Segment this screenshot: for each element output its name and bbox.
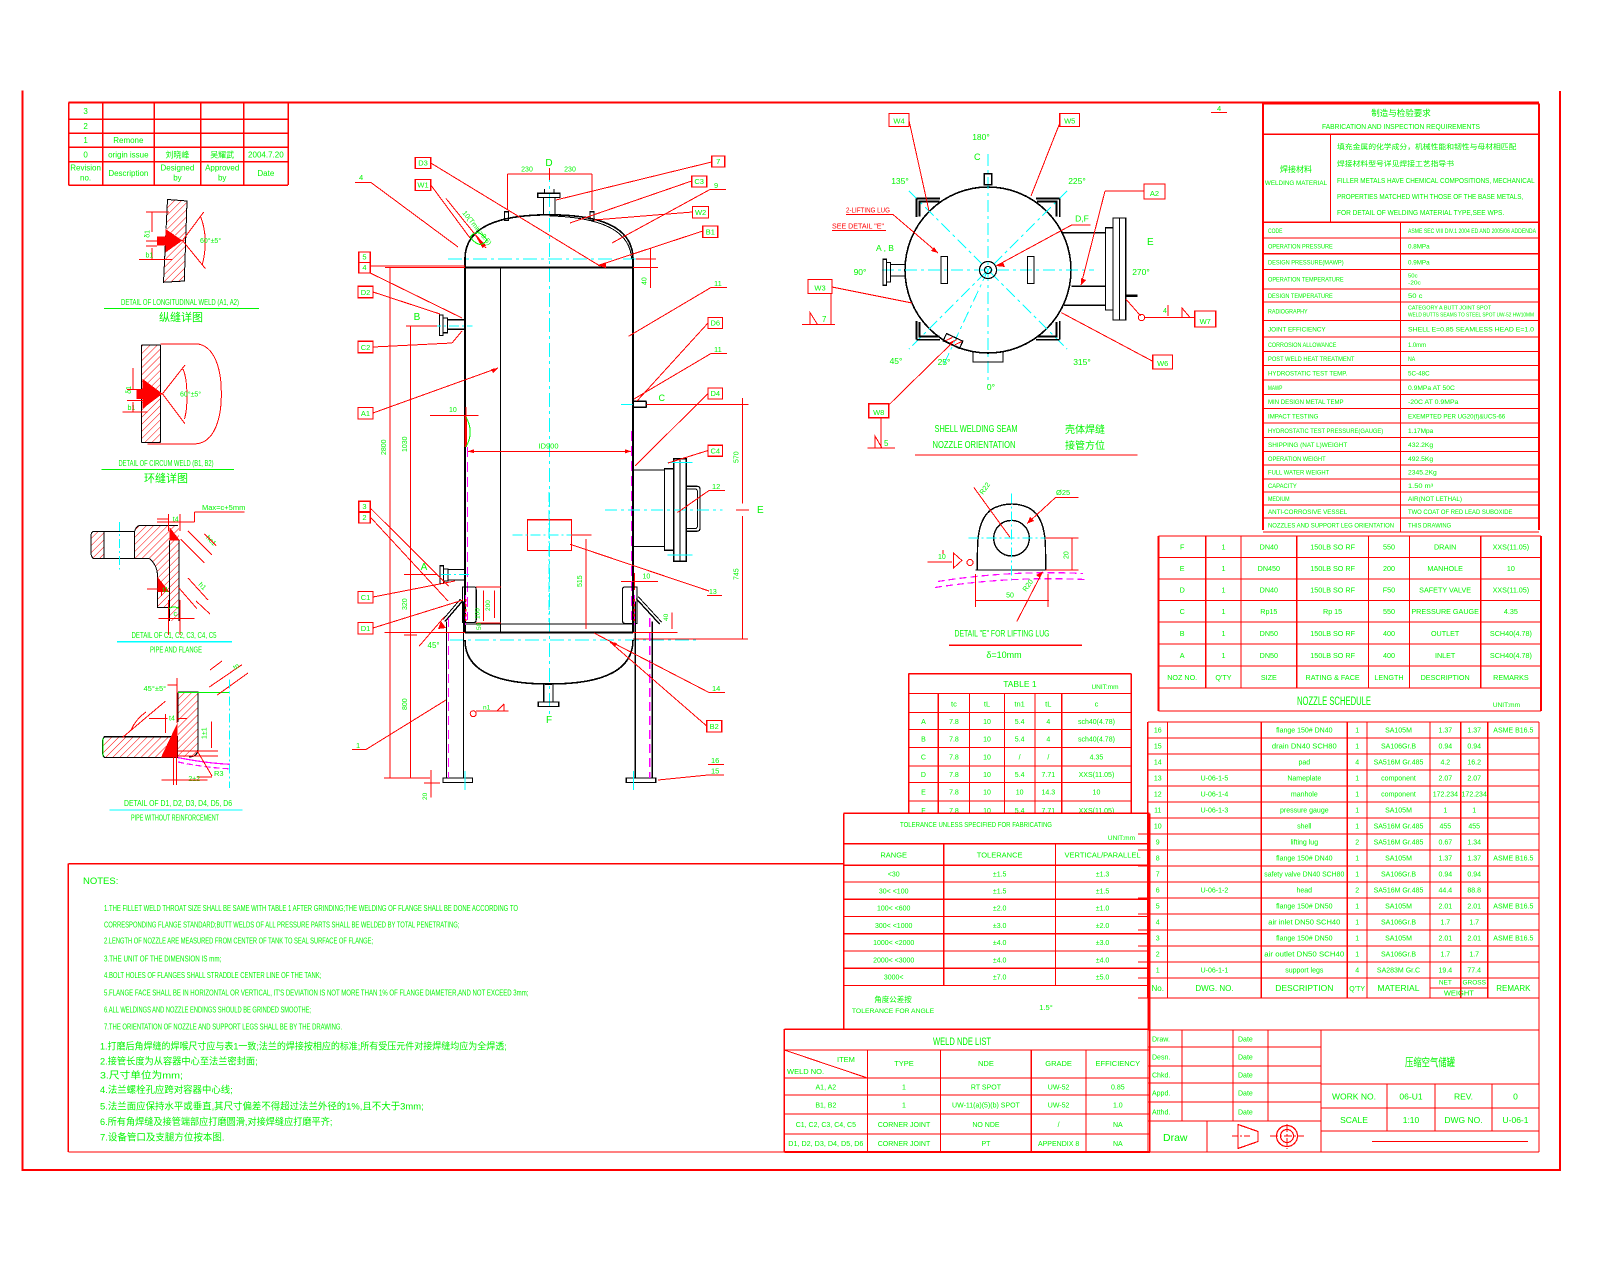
svg-text:-20C AT 0.9MPa: -20C AT 0.9MPa xyxy=(1408,399,1459,406)
title block signature table xyxy=(1148,1030,1321,1152)
svg-text:Date: Date xyxy=(1238,1090,1253,1097)
svg-text:SA105M: SA105M xyxy=(1385,808,1412,815)
svg-text:焊接材料: 焊接材料 xyxy=(1280,164,1312,174)
nozzle F bottom xyxy=(538,684,559,726)
svg-text:ID900: ID900 xyxy=(538,442,558,451)
table 1 nozzle weld sizes xyxy=(909,674,1132,819)
svg-text:NET: NET xyxy=(1439,980,1452,987)
svg-text:4.35: 4.35 xyxy=(1090,755,1104,762)
svg-text:R3: R3 xyxy=(214,769,224,778)
svg-text:t1: t1 xyxy=(163,587,169,594)
svg-text:flange 150# DN40: flange 150# DN40 xyxy=(1276,728,1333,735)
svg-text:5C-48C: 5C-48C xyxy=(1408,370,1430,377)
svg-text:WELD NO.: WELD NO. xyxy=(787,1067,824,1076)
svg-text:45°: 45° xyxy=(890,356,903,366)
svg-text:100< <600: 100< <600 xyxy=(877,906,911,913)
leg pad dims right of left leg xyxy=(475,587,501,630)
svg-text:200: 200 xyxy=(485,600,492,611)
svg-text:270°: 270° xyxy=(1132,267,1150,277)
svg-text:6.ALL WELDINGS AND NOZZLE ENDI: 6.ALL WELDINGS AND NOZZLE ENDINGS SHOULD… xyxy=(104,1006,311,1015)
detail E hole diameter callout xyxy=(1027,488,1079,524)
detail E weld symbol xyxy=(928,550,974,568)
circumferential weld B2 line xyxy=(465,623,633,625)
orientation centerline 25 degree xyxy=(944,270,988,364)
svg-text:WELD BUTTS SEAMS TO STEEL SPOT: WELD BUTTS SEAMS TO STEEL SPOT UW-52 HW1… xyxy=(1408,313,1534,319)
svg-text:B: B xyxy=(921,736,926,743)
lifting lug callout text xyxy=(832,206,938,254)
svg-text:13: 13 xyxy=(1154,776,1162,783)
svg-text:2.LENGTH OF NOZZLE ARE MEASURE: 2.LENGTH OF NOZZLE ARE MEASURED FROM CEN… xyxy=(104,937,373,946)
svg-text:D,F: D,F xyxy=(1075,214,1089,224)
svg-text:50: 50 xyxy=(1006,593,1014,600)
detail of pipe and flange C1-C5 - flange body hatch xyxy=(91,526,179,621)
svg-text:1: 1 xyxy=(902,1084,906,1091)
svg-text:CATEGORY A BUTT JOINT SPOT: CATEGORY A BUTT JOINT SPOT xyxy=(1408,306,1492,312)
svg-text:TWO COAT OF RED LEAD SUBOXIDE: TWO COAT OF RED LEAD SUBOXIDE xyxy=(1408,509,1512,516)
svg-text:TYPE: TYPE xyxy=(894,1059,914,1068)
circumferential weld B1 line xyxy=(465,267,633,269)
svg-text:pad: pad xyxy=(1298,760,1310,767)
label D F orientation xyxy=(996,214,1091,268)
svg-text:1: 1 xyxy=(1355,856,1359,863)
svg-text:air outlet DN50 SCH40: air outlet DN50 SCH40 xyxy=(1264,952,1344,959)
svg-text:2: 2 xyxy=(1156,952,1160,959)
orientation centerline horizontal xyxy=(882,269,1094,271)
svg-text:±7.0: ±7.0 xyxy=(993,975,1007,982)
svg-text:1.7: 1.7 xyxy=(1440,952,1450,959)
svg-text:Designed: Designed xyxy=(161,164,195,173)
svg-text:W1: W1 xyxy=(417,181,428,190)
svg-text:OPERATION TEMPERATURE: OPERATION TEMPERATURE xyxy=(1268,277,1344,284)
svg-text:RT SPOT: RT SPOT xyxy=(971,1084,1002,1091)
balloon A2 xyxy=(1081,184,1165,285)
svg-text:<30: <30 xyxy=(888,871,900,878)
svg-text:SA105M: SA105M xyxy=(1385,728,1412,735)
head thickness callout 10(Tmin=8.5) xyxy=(446,199,492,249)
nozzle A B stub left of circle xyxy=(883,259,905,285)
svg-text:30< <100: 30< <100 xyxy=(879,888,909,895)
svg-text:1: 1 xyxy=(1355,872,1359,879)
nozzle C right stub xyxy=(621,393,749,407)
svg-text:50 c: 50 c xyxy=(1408,293,1423,300)
svg-text:Date: Date xyxy=(1238,1109,1253,1116)
svg-text:2000< <3000: 2000< <3000 xyxy=(873,957,914,964)
svg-text:XXS(11.05): XXS(11.05) xyxy=(1079,772,1115,779)
title block drawing info xyxy=(1148,998,1539,1152)
svg-text:172.234: 172.234 xyxy=(1462,792,1487,799)
svg-text:4: 4 xyxy=(359,173,363,182)
svg-text:16: 16 xyxy=(1154,728,1162,735)
svg-text:C4: C4 xyxy=(710,446,720,455)
detail E lug hole xyxy=(994,520,1030,556)
detail E shell surface magenta xyxy=(935,573,1085,588)
svg-text:SA516M Gr.485: SA516M Gr.485 xyxy=(1374,824,1424,831)
svg-text:150LB SO RF: 150LB SO RF xyxy=(1310,543,1355,552)
svg-text:CAPACITY: CAPACITY xyxy=(1268,483,1297,490)
balloon 4 top far right xyxy=(1211,104,1227,113)
svg-text:REV.: REV. xyxy=(1454,1092,1473,1102)
svg-text:tc: tc xyxy=(951,700,957,709)
dimension 40 top right xyxy=(633,248,658,288)
detail E centerlines xyxy=(969,494,1048,584)
svg-text:SHIPPING (NAT L)WEIGHT: SHIPPING (NAT L)WEIGHT xyxy=(1268,442,1347,449)
svg-text:PIPE AND FLANGE: PIPE AND FLANGE xyxy=(150,645,202,655)
svg-text:Date: Date xyxy=(257,169,274,178)
svg-text:15: 15 xyxy=(711,767,719,776)
svg-text:C1: C1 xyxy=(361,593,371,602)
balloon W4 xyxy=(889,114,929,212)
t4 dimension detail 3 xyxy=(157,514,180,531)
svg-text:0.94: 0.94 xyxy=(1439,872,1453,879)
svg-text:WELD NDE LIST: WELD NDE LIST xyxy=(933,1036,991,1048)
svg-text:200: 200 xyxy=(1383,564,1395,573)
svg-text:U-06-1-3: U-06-1-3 xyxy=(1201,808,1229,815)
svg-text:±3.0: ±3.0 xyxy=(1096,940,1110,947)
left support leg xyxy=(443,599,473,790)
svg-text:7.8: 7.8 xyxy=(949,755,959,762)
svg-text:4: 4 xyxy=(1355,760,1359,767)
nozzle D top flange xyxy=(538,158,560,216)
svg-text:by: by xyxy=(218,174,226,183)
svg-text:1: 1 xyxy=(1355,920,1359,927)
svg-text:90°: 90° xyxy=(854,267,867,277)
svg-text:DETAIL "E" FOR LIFTING LUG: DETAIL "E" FOR LIFTING LUG xyxy=(955,629,1050,640)
svg-text:SA106Gr.B: SA106Gr.B xyxy=(1381,872,1416,879)
svg-text:172.234: 172.234 xyxy=(1433,792,1458,799)
svg-text:SA105M: SA105M xyxy=(1385,904,1412,911)
svg-text:40: 40 xyxy=(642,277,649,285)
svg-text:shell: shell xyxy=(1297,824,1312,831)
svg-text:3.THE UNIT OF THE DIMENSION IS: 3.THE UNIT OF THE DIMENSION IS mm; xyxy=(104,955,221,964)
svg-text:Nameplate: Nameplate xyxy=(1287,776,1321,783)
balloon 9 xyxy=(612,181,726,243)
svg-text:1: 1 xyxy=(1221,629,1225,638)
svg-text:3: 3 xyxy=(362,502,366,511)
svg-text:1.7: 1.7 xyxy=(1469,952,1479,959)
svg-text:10: 10 xyxy=(983,719,991,726)
svg-text:D3: D3 xyxy=(418,159,428,168)
svg-text:Date: Date xyxy=(1238,1036,1253,1043)
svg-text:4: 4 xyxy=(1355,968,1359,975)
svg-text:4: 4 xyxy=(1156,920,1160,927)
svg-text:±3.0: ±3.0 xyxy=(993,923,1007,930)
svg-text:sch40(4.78): sch40(4.78) xyxy=(1078,736,1115,743)
vessel shell sides xyxy=(465,259,633,633)
svg-text:150LB SO RF: 150LB SO RF xyxy=(1310,564,1355,573)
svg-text:400: 400 xyxy=(1383,629,1395,638)
svg-text:SIZE: SIZE xyxy=(1261,673,1277,682)
weld seam mark 25 degrees xyxy=(943,334,963,349)
svg-text:焊接材料型号详见焊接工艺指导书: 焊接材料型号详见焊接工艺指导书 xyxy=(1337,159,1454,168)
svg-text:2.01: 2.01 xyxy=(1439,936,1453,943)
svg-text:CORROSION ALLOWANCE: CORROSION ALLOWANCE xyxy=(1268,342,1336,349)
svg-text:DESCRIPTION: DESCRIPTION xyxy=(1421,673,1470,682)
svg-text:A1: A1 xyxy=(361,409,370,418)
svg-text:压缩空气储罐: 压缩空气储罐 xyxy=(1405,1055,1455,1069)
svg-text:C: C xyxy=(1180,607,1185,616)
svg-text:1.0: 1.0 xyxy=(1113,1102,1123,1109)
ID900 dimension xyxy=(468,442,632,454)
balloon W7 with field weld flag xyxy=(1126,299,1216,327)
svg-text:B1, B2: B1, B2 xyxy=(815,1102,836,1109)
svg-text:t4: t4 xyxy=(169,716,175,723)
svg-text:E: E xyxy=(1147,237,1154,248)
svg-text:component: component xyxy=(1381,792,1416,799)
svg-text:1: 1 xyxy=(356,741,360,750)
svg-text:6.所有角焊缝及接管端部应打磨圆滑,对接焊缝应打磨平齐;: 6.所有角焊缝及接管端部应打磨圆滑,对接焊缝应打磨平齐; xyxy=(100,1116,332,1128)
svg-text:NOZZLE ORIENTATION: NOZZLE ORIENTATION xyxy=(933,439,1016,451)
svg-text:NOTES:: NOTES: xyxy=(83,876,118,887)
svg-text:DETAIL OF C1, C2, C3, C4, C5: DETAIL OF C1, C2, C3, C4, C5 xyxy=(132,630,217,640)
svg-text:D: D xyxy=(1180,586,1185,595)
svg-text:±2.0: ±2.0 xyxy=(1096,923,1110,930)
svg-text:support legs: support legs xyxy=(1285,968,1324,975)
detail E R22 callout xyxy=(974,482,1010,538)
svg-text:DWG. NO.: DWG. NO. xyxy=(1195,984,1233,993)
left leg reinforcement pad xyxy=(462,587,476,625)
balloon 3 and 2 xyxy=(359,501,449,601)
svg-text:/: / xyxy=(1047,755,1049,762)
svg-text:SA105M: SA105M xyxy=(1385,856,1412,863)
svg-text:D2: D2 xyxy=(361,288,371,297)
vessel top head xyxy=(465,215,633,259)
svg-text:1: 1 xyxy=(1355,936,1359,943)
svg-text:壳体焊缝: 壳体焊缝 xyxy=(1065,423,1105,436)
svg-text:2: 2 xyxy=(1355,840,1359,847)
svg-text:3: 3 xyxy=(1156,936,1160,943)
svg-text:NDE: NDE xyxy=(978,1059,994,1068)
head curve detail 2 xyxy=(148,344,222,444)
svg-text:manhole: manhole xyxy=(1291,792,1318,799)
svg-text:150LB SO RF: 150LB SO RF xyxy=(1310,629,1355,638)
svg-text:4.2: 4.2 xyxy=(1440,760,1450,767)
svg-text:7.THE ORIENTATION OF NOZZLE AN: 7.THE ORIENTATION OF NOZZLE AND SUPPORT … xyxy=(104,1023,342,1032)
svg-text:7.8: 7.8 xyxy=(949,772,959,779)
manhole E nozzle xyxy=(605,459,764,562)
svg-text:Rp15: Rp15 xyxy=(1260,607,1277,616)
svg-text:DRAIN: DRAIN xyxy=(1434,543,1456,552)
svg-text:IMPACT TESTING: IMPACT TESTING xyxy=(1268,413,1318,420)
svg-text:4.35: 4.35 xyxy=(1504,607,1518,616)
svg-text:7.8: 7.8 xyxy=(949,719,959,726)
svg-text:Atthd.: Atthd. xyxy=(1152,1109,1170,1116)
svg-text:by: by xyxy=(173,174,181,183)
svg-text:XXS(11.05): XXS(11.05) xyxy=(1493,543,1530,552)
bottom tangent right extension xyxy=(633,632,678,634)
svg-text:19.4: 19.4 xyxy=(1439,968,1453,975)
svg-text:1030: 1030 xyxy=(402,436,409,452)
balloon D3 top left xyxy=(415,158,600,267)
svg-text:Chkd.: Chkd. xyxy=(1152,1072,1170,1079)
svg-text:1: 1 xyxy=(1355,776,1359,783)
svg-text:315°: 315° xyxy=(1073,357,1091,367)
svg-text:Rp 15: Rp 15 xyxy=(1323,607,1342,616)
detail E dim 20 xyxy=(1046,538,1079,570)
balloon W3 with flag xyxy=(802,280,912,325)
svg-text:PROPERTIES MATCHED WITH THOSE: PROPERTIES MATCHED WITH THOSE OF THE BAS… xyxy=(1337,194,1523,201)
svg-text:Desn.: Desn. xyxy=(1152,1054,1170,1061)
svg-text:515: 515 xyxy=(577,575,584,587)
title detail of circum weld xyxy=(101,458,234,485)
svg-text:10: 10 xyxy=(449,407,457,414)
svg-text:NO NDE: NO NDE xyxy=(972,1122,1000,1129)
svg-text:40: 40 xyxy=(663,613,670,621)
svg-text:D1: D1 xyxy=(361,624,371,633)
groove angle fan detail 2 xyxy=(163,365,202,424)
svg-text:W2: W2 xyxy=(695,208,706,217)
svg-text:±1.5: ±1.5 xyxy=(993,871,1007,878)
svg-text:Max=c+5mm: Max=c+5mm xyxy=(202,503,245,512)
orientation centerline vertical xyxy=(987,154,989,386)
svg-text:1.17Mpa: 1.17Mpa xyxy=(1408,428,1434,435)
balloon W1 top left xyxy=(415,180,470,239)
lifting lug right in orientation view xyxy=(1028,257,1035,284)
svg-text:88.8: 88.8 xyxy=(1467,888,1481,895)
svg-text:550: 550 xyxy=(1383,607,1395,616)
svg-text:C2: C2 xyxy=(361,343,371,352)
svg-text:U-06-1-2: U-06-1-2 xyxy=(1201,888,1229,895)
svg-text:E: E xyxy=(757,505,764,516)
svg-text:25°: 25° xyxy=(938,357,951,367)
balloon B1 xyxy=(598,226,718,268)
orientation centerline diagonal NE-SW xyxy=(909,191,1067,349)
svg-text:制造与检验要求: 制造与检验要求 xyxy=(1371,108,1431,118)
weld bead C2 detail 3 xyxy=(158,577,170,592)
svg-text:OPERATION PRESSURE: OPERATION PRESSURE xyxy=(1268,244,1333,251)
third angle projection symbol xyxy=(1232,1124,1304,1149)
svg-text:origin issue: origin issue xyxy=(108,150,149,159)
svg-text:REMARKS: REMARKS xyxy=(1493,673,1529,682)
centerline detail 4 xyxy=(229,680,231,788)
svg-text:800: 800 xyxy=(402,698,409,710)
svg-text:230: 230 xyxy=(564,167,576,174)
svg-text:1.0mm: 1.0mm xyxy=(1408,342,1426,349)
svg-text:W7: W7 xyxy=(1200,317,1211,326)
vessel top tangent centerline xyxy=(448,258,650,260)
svg-text:c: c xyxy=(174,611,178,618)
svg-text:4.法兰螺栓孔应跨对容器中心线;: 4.法兰螺栓孔应跨对容器中心线; xyxy=(100,1084,233,1096)
svg-text:2800: 2800 xyxy=(381,439,388,455)
groove angle fan detail 1 xyxy=(183,212,222,269)
notes text xyxy=(83,876,528,1144)
svg-text:HYDROSTATIC TEST PRESSURE(GAUG: HYDROSTATIC TEST PRESSURE(GAUGE) xyxy=(1268,428,1383,435)
svg-text:flange 150# DN50: flange 150# DN50 xyxy=(1276,904,1333,911)
svg-text:11: 11 xyxy=(1154,808,1161,815)
magenta shell curve detail 4 xyxy=(178,758,230,769)
svg-text:OUTLET: OUTLET xyxy=(1431,629,1460,638)
svg-text:400: 400 xyxy=(1383,651,1395,660)
svg-text:10: 10 xyxy=(1016,790,1024,797)
centerline detail 3 xyxy=(118,522,120,570)
detail of circum weld B1 B2 - plate with hatch xyxy=(141,345,161,443)
balloon D1 xyxy=(358,600,463,634)
svg-text:14: 14 xyxy=(1154,760,1162,767)
svg-text:NOZ NO.: NOZ NO. xyxy=(1167,673,1197,682)
svg-text:POST WELD HEAT TREATMENT: POST WELD HEAT TREATMENT xyxy=(1268,356,1354,363)
balloon 7 top right xyxy=(556,156,725,200)
svg-text:4: 4 xyxy=(1163,308,1167,315)
svg-text:ITEM: ITEM xyxy=(837,1055,855,1064)
svg-text:4: 4 xyxy=(1046,719,1050,726)
svg-text:纵缝详图: 纵缝详图 xyxy=(159,310,203,324)
svg-text:AIR(NOT LETHAL): AIR(NOT LETHAL) xyxy=(1408,496,1462,503)
svg-text:VERTICAL/PARALLEL: VERTICAL/PARALLEL xyxy=(1065,851,1141,860)
svg-text:B: B xyxy=(1180,629,1185,638)
svg-text:432.2Kg: 432.2Kg xyxy=(1408,442,1434,449)
svg-text:component: component xyxy=(1381,776,1416,783)
balloon W2 xyxy=(594,207,709,221)
svg-text:4: 4 xyxy=(1217,104,1221,113)
svg-text:FOR DETAIL OF WELDING MATERIAL: FOR DETAIL OF WELDING MATERIAL TYPE,SEE … xyxy=(1337,210,1504,217)
svg-text:W5: W5 xyxy=(1064,117,1075,126)
balloon 14 xyxy=(594,633,725,693)
svg-text:lifting lug: lifting lug xyxy=(1290,840,1318,847)
svg-text:1.50 m³: 1.50 m³ xyxy=(1408,483,1433,490)
lifting lugs on top head xyxy=(505,212,595,221)
left dimension lines xyxy=(381,268,465,779)
svg-text:2: 2 xyxy=(1355,888,1359,895)
svg-text:9: 9 xyxy=(714,181,718,190)
svg-text:7.8: 7.8 xyxy=(949,790,959,797)
svg-text:THIS DRAWING: THIS DRAWING xyxy=(1408,523,1451,530)
svg-text:100: 100 xyxy=(475,608,482,619)
right weld mark 10 xyxy=(621,573,658,590)
svg-text:4: 4 xyxy=(1046,736,1050,743)
svg-text:air inlet DN50 SCH40: air inlet DN50 SCH40 xyxy=(1268,920,1340,927)
svg-text:0.8MPa: 0.8MPa xyxy=(1408,244,1430,251)
svg-text:10: 10 xyxy=(643,574,651,581)
svg-text:UNIT:mm: UNIT:mm xyxy=(1091,684,1118,691)
svg-text:B1: B1 xyxy=(706,228,715,237)
svg-text:A2: A2 xyxy=(1150,189,1159,198)
svg-text:sch40(4.78): sch40(4.78) xyxy=(1078,719,1115,726)
svg-text:±5.0: ±5.0 xyxy=(1096,975,1110,982)
svg-text:7.设备管口及支腿方位按本图.: 7.设备管口及支腿方位按本图. xyxy=(100,1132,225,1144)
svg-text:ASME B16.5: ASME B16.5 xyxy=(1493,728,1533,735)
svg-text:A: A xyxy=(1180,651,1185,660)
svg-text:2.01: 2.01 xyxy=(1439,904,1453,911)
svg-text:SHELL E=0.85 SEAMLESS HEAD: SHELL E=0.85 SEAMLESS HEAD E=1.0 xyxy=(1408,326,1534,333)
svg-text:SCH40(4.78): SCH40(4.78) xyxy=(1490,629,1532,638)
detail E lifting lug body xyxy=(976,504,1048,570)
right support leg xyxy=(626,597,661,790)
svg-text:2.接管长度为从容器中心至法兰密封面;: 2.接管长度为从容器中心至法兰密封面; xyxy=(100,1056,258,1068)
svg-text:DETAIL OF D1, D2, D3, D4, D5,: DETAIL OF D1, D2, D3, D4, D5, D6 xyxy=(124,798,232,808)
svg-text:tn1: tn1 xyxy=(1014,700,1024,709)
svg-text:F: F xyxy=(546,715,552,726)
svg-text:A: A xyxy=(921,719,926,726)
svg-text:10: 10 xyxy=(983,755,991,762)
nameplate bracket bottom of circle xyxy=(973,351,1003,362)
svg-text:OPERATION WEIGHT: OPERATION WEIGHT xyxy=(1268,456,1326,463)
svg-text:0.9MPa AT 50C: 0.9MPa AT 50C xyxy=(1408,385,1455,392)
svg-text:SA516M Gr.485: SA516M Gr.485 xyxy=(1374,760,1424,767)
balloon W6 xyxy=(1061,313,1172,369)
svg-text:FILLER METALS HAVE CHEMICAL CO: FILLER METALS HAVE CHEMICAL COMPOSITIONS… xyxy=(1337,178,1535,185)
detail of pipe without reinforcement D1-D6 - shell plate hatch xyxy=(103,737,178,758)
svg-text:NA: NA xyxy=(1113,1122,1123,1129)
balloon W8 with flag xyxy=(868,342,954,448)
dimension 745 right xyxy=(633,516,748,639)
svg-text:12: 12 xyxy=(1154,792,1162,799)
right leg reinforcement pad xyxy=(622,587,637,625)
balloon 1 left bottom xyxy=(352,700,446,750)
svg-text:C: C xyxy=(659,393,666,403)
svg-text:3.尺寸单位为mm;: 3.尺寸单位为mm; xyxy=(100,1070,183,1082)
detail E dim 50 xyxy=(975,574,1049,607)
svg-text:7: 7 xyxy=(1156,872,1160,879)
45 degree leg angle label xyxy=(385,617,465,650)
